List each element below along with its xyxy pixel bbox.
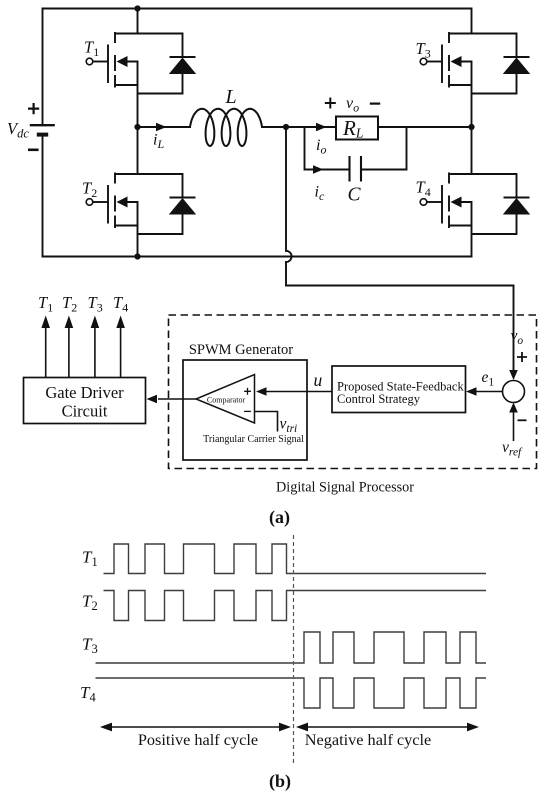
source stub T3 — [449, 84, 472, 86]
summer plus sign — [517, 352, 527, 362]
SPWM generator box — [183, 360, 307, 460]
gate lead T4 — [427, 201, 442, 203]
svg-text:Positive half cycle: Positive half cycle — [138, 730, 258, 749]
wire capacitor branch right — [361, 127, 407, 170]
svg-text:Comparator: Comparator — [207, 396, 246, 405]
transistor T1 (MOSFET) — [86, 32, 137, 88]
node bottom rail / T2 source — [134, 253, 140, 259]
wire RL to right node — [378, 126, 472, 128]
svg-text:C: C — [348, 185, 362, 206]
channel segments T4 — [448, 173, 450, 229]
controller box Proposed State-Feedback — [332, 366, 466, 413]
svg-text:u: u — [314, 370, 323, 390]
source stub T4 — [449, 225, 472, 227]
wire left rail lower — [42, 135, 44, 257]
diode D3 (body diode of T3) — [472, 34, 531, 94]
svg-text:SPWM Generator: SPWM Generator — [189, 342, 293, 358]
transistor T4 (MOSFET) — [420, 173, 471, 229]
label minus sign of vo — [370, 102, 380, 104]
wire T1 drain vertical — [137, 9, 139, 34]
svg-text:Control Strategy: Control Strategy — [337, 392, 421, 406]
waveform T4 — [96, 678, 487, 708]
node left leg midpoint — [134, 124, 140, 130]
wire gate signal arrow T4 — [120, 327, 122, 378]
wire T4 source to rail — [471, 226, 473, 257]
summer minus sign — [518, 419, 527, 421]
gate bar T3 — [441, 45, 443, 84]
wire vtri input — [255, 412, 278, 432]
wire T2 source to rail — [137, 226, 139, 257]
svg-text:Negative half cycle: Negative half cycle — [305, 730, 432, 749]
svg-text:Gate Driver: Gate Driver — [45, 383, 124, 402]
arrow iL — [156, 123, 167, 131]
body arrow T2 — [126, 202, 138, 226]
drain stub T1 — [115, 33, 138, 35]
diode D2 (body diode of T2) — [138, 174, 197, 234]
diode D4 (body diode of T4) — [472, 174, 531, 234]
drain stub T2 — [115, 173, 138, 175]
wire sense to summer — [286, 262, 514, 374]
transistor T2 (MOSFET) — [86, 173, 137, 229]
wire bottom rail — [43, 256, 472, 258]
resistor RL — [336, 117, 378, 140]
svg-text:L: L — [225, 86, 237, 108]
wire top rail — [43, 8, 472, 10]
comparator plus input sign — [244, 388, 251, 395]
svg-text:Triangular Carrier Signal: Triangular Carrier Signal — [203, 434, 304, 445]
wire gate signal arrow T3 — [94, 327, 96, 378]
channel segments T2 — [114, 173, 116, 229]
wire gate signal arrow T2 — [68, 327, 70, 378]
gate lead T1 — [93, 61, 108, 63]
battery Vdc plates — [30, 125, 55, 134]
channel segments T1 — [114, 32, 116, 88]
wire u input — [264, 391, 332, 393]
wire hop over bottom rail — [286, 251, 292, 262]
source stub T1 — [115, 84, 138, 86]
node top rail / T1 drain — [134, 5, 140, 11]
gate terminal circle T4 — [420, 199, 427, 206]
gate driver circuit box — [24, 378, 146, 424]
wire T1 source to node — [137, 85, 139, 127]
junction dots — [134, 5, 474, 259]
arrow positive half cycle span — [110, 726, 282, 728]
arrow ic — [313, 165, 324, 173]
arrow negative half cycle span — [306, 726, 470, 728]
summing junction circle — [503, 381, 525, 403]
battery plus sign — [28, 103, 39, 114]
svg-text:Circuit: Circuit — [62, 402, 108, 421]
DSP dashed box — [169, 315, 537, 469]
wire gate signal arrow T1 — [45, 327, 47, 378]
wire capacitor branch left — [305, 127, 350, 170]
waveform T3 — [96, 632, 487, 663]
wire T4 drain vertical — [471, 127, 473, 174]
inductor L — [190, 109, 262, 146]
drain stub T3 — [449, 33, 472, 35]
wire T2 drain vertical — [137, 127, 139, 174]
arrowhead vo into summer — [509, 370, 518, 380]
label plus sign of vo — [325, 98, 336, 109]
wire T3 drain vertical — [471, 9, 473, 34]
comparator minus input sign — [244, 410, 251, 412]
body arrow T3 — [460, 62, 472, 86]
source stub T2 — [115, 225, 138, 227]
section (b) waveforms — [96, 544, 487, 708]
transistor T3 (MOSFET) — [420, 32, 471, 88]
wire left rail upper — [42, 9, 44, 126]
channel segments T3 — [448, 32, 450, 88]
drain stub T4 — [449, 173, 472, 175]
wire inductor to RL — [262, 126, 336, 128]
wire node to inductor — [138, 126, 191, 128]
svg-text:(b): (b) — [269, 771, 291, 792]
waveform T1 — [104, 544, 487, 574]
svg-text:(a): (a) — [269, 507, 290, 528]
wire e1 — [475, 391, 503, 393]
waveform T2 — [104, 591, 487, 621]
gate lead T3 — [427, 61, 442, 63]
battery minus sign — [28, 149, 39, 152]
gate lead T2 — [93, 201, 108, 203]
wire vref into summer — [513, 410, 515, 441]
gate terminal circle T2 — [86, 199, 93, 206]
capacitor C plates — [350, 157, 362, 181]
op-amp comparator triangle — [196, 375, 255, 424]
gate bar T4 — [441, 185, 443, 224]
gate terminal circle T3 — [420, 58, 427, 65]
dashed half-cycle divider — [293, 535, 295, 763]
gate terminal circle T1 — [86, 58, 93, 65]
arrow io — [316, 123, 327, 131]
gate bar T1 — [107, 45, 109, 84]
body arrow T1 — [126, 62, 138, 86]
node output after inductor — [283, 124, 289, 130]
body arrow T4 — [460, 202, 472, 226]
gate bar T2 — [107, 185, 109, 224]
diode D1 (body diode of T1) — [138, 34, 197, 94]
wire comparator output — [158, 398, 196, 400]
wire vo sense drop — [285, 127, 287, 251]
svg-text:Digital Signal Processor: Digital Signal Processor — [276, 480, 414, 496]
wire T3 source to node — [471, 85, 473, 127]
node right leg midpoint — [468, 124, 474, 130]
